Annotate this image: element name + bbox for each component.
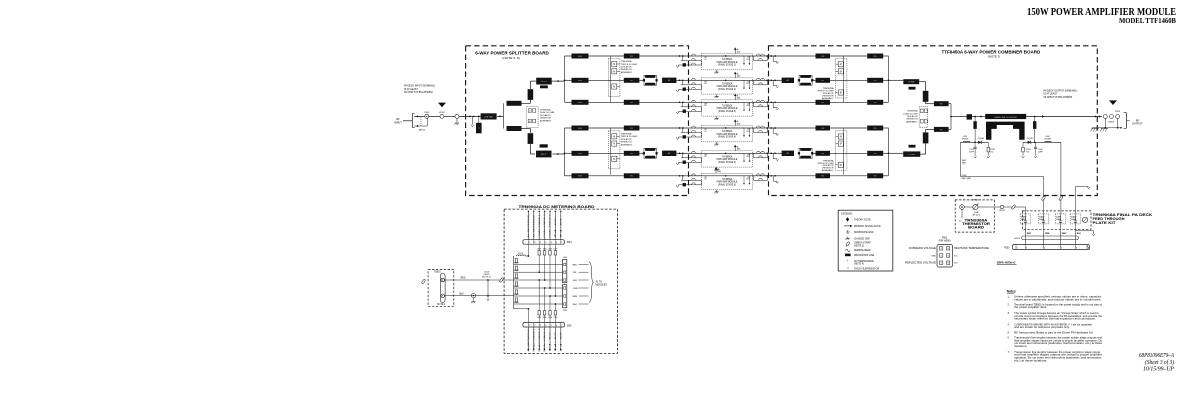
svg-text:TB501: TB501 <box>434 272 441 274</box>
svg-text:MODEL TTF1460B: MODEL TTF1460B <box>1119 17 1176 25</box>
svg-text:HEATSINK TEMPERATURE: HEATSINK TEMPERATURE <box>954 247 990 250</box>
svg-text:470NH: 470NH <box>962 139 969 141</box>
svg-text:8: 8 <box>534 242 535 244</box>
svg-text:(FINAL STAGE 4): (FINAL STAGE 4) <box>718 136 736 139</box>
svg-text:2DB PAD: 2DB PAD <box>484 115 493 118</box>
svg-text:BLK: BLK <box>460 293 465 295</box>
svg-text:3: 3 <box>1026 247 1027 249</box>
svg-text:BRN: BRN <box>573 296 578 298</box>
svg-text:(FINAL STAGE 2): (FINAL STAGE 2) <box>718 88 736 91</box>
svg-text:FINAL STAGE 1: FINAL STAGE 1 <box>538 213 541 237</box>
svg-text:ASSEMBLY: ASSEMBLY <box>621 143 633 146</box>
svg-text:50 OHM TYP 851-870MHZ: 50 OHM TYP 851-870MHZ <box>404 91 433 94</box>
svg-text:3: 3 <box>540 325 541 327</box>
svg-text:necessary strain relief for th: necessary strain relief for thermal expa… <box>1014 317 1096 321</box>
svg-text:3.: 3. <box>1008 311 1010 315</box>
svg-text:N.C.: N.C. <box>555 212 557 237</box>
svg-text:INPUT: INPUT <box>394 120 402 124</box>
svg-text:M: M <box>613 135 615 138</box>
svg-text:TLF6850A: TLF6850A <box>722 178 733 181</box>
svg-text:4: 4 <box>1044 247 1045 249</box>
svg-text:60 OHM TYP 851-870MHZ: 60 OHM TYP 851-870MHZ <box>1044 96 1073 99</box>
svg-text:RED: RED <box>1027 233 1032 235</box>
svg-text:6-WAY POWER SPLITTER BOARD: 6-WAY POWER SPLITTER BOARD <box>475 50 549 55</box>
svg-text:P550: P550 <box>1004 248 1010 250</box>
svg-text:1: 1 <box>941 263 942 265</box>
svg-text:GRY: GRY <box>573 280 578 282</box>
svg-text:FORWARD VOLTAGE: FORWARD VOLTAGE <box>909 247 937 250</box>
svg-text:TRIPLE 50 OHM: TRIPLE 50 OHM <box>621 64 637 66</box>
svg-text:5.: 5. <box>1008 331 1010 335</box>
svg-text:PWR AMP MODULE: PWR AMP MODULE <box>717 133 738 136</box>
svg-text:OUTPUT: OUTPUT <box>1132 122 1143 126</box>
svg-text:(A5): (A5) <box>737 148 741 151</box>
svg-text:(FINAL STAGE 1): (FINAL STAGE 1) <box>718 64 736 67</box>
svg-text:REFLECTED VOLTAGE: REFLECTED VOLTAGE <box>905 262 937 265</box>
svg-text:10/15/99–UP: 10/15/99–UP <box>1143 366 1174 373</box>
svg-text:6: 6 <box>948 255 949 257</box>
svg-text:TRN9093A: TRN9093A <box>621 60 632 63</box>
svg-text:TLF6850A: TLF6850A <box>722 58 733 61</box>
svg-text:COMB: COMB <box>909 154 916 156</box>
svg-text:6: 6 <box>948 248 949 250</box>
svg-text:ISOLATOR: ISOLATOR <box>907 115 918 118</box>
svg-text:FINAL STAGE 4: FINAL STAGE 4 <box>532 327 535 351</box>
svg-text:MODULES: MODULES <box>596 285 608 287</box>
svg-text:(A4): (A4) <box>737 122 741 125</box>
svg-text:ISOLATOR: ISOLATOR <box>540 114 551 117</box>
svg-text:1: 1 <box>941 248 942 250</box>
svg-text:3DB: 3DB <box>578 128 583 130</box>
svg-text:3DB: 3DB <box>578 176 583 178</box>
svg-text:(NOTE 4): (NOTE 4) <box>854 264 864 266</box>
svg-text:1.: 1. <box>1008 294 1010 298</box>
svg-text:ASSEMBLY: ASSEMBLY <box>822 169 834 172</box>
svg-text:1: 1 <box>529 325 530 327</box>
svg-text:A1 METERING: A1 METERING <box>527 328 530 352</box>
svg-text:TLF6850A: TLF6850A <box>722 104 733 107</box>
svg-text:TLF6850A: TLF6850A <box>722 155 733 158</box>
svg-text:M: M <box>840 70 842 73</box>
svg-text:M: M <box>613 70 615 73</box>
svg-text:SPLIT: SPLIT <box>541 154 548 156</box>
svg-text:locations.: locations. <box>1014 344 1028 348</box>
svg-text:CR501: CR501 <box>978 138 985 140</box>
svg-text:3DB: 3DB <box>578 153 583 155</box>
svg-text:RESISTOR: RESISTOR <box>621 142 632 144</box>
svg-text:N.C.: N.C. <box>560 326 562 351</box>
svg-text:LEGEND:: LEGEND: <box>841 212 853 216</box>
svg-text:(NOTE 5, 6): (NOTE 5, 6) <box>502 56 519 60</box>
svg-text:RT501: RT501 <box>972 200 979 202</box>
svg-text:Notes: Notes <box>1007 290 1016 294</box>
svg-text:R506: R506 <box>514 302 519 304</box>
svg-text:(FINAL STAGE 5): (FINAL STAGE 5) <box>718 161 736 164</box>
svg-text:(NOTE 7): (NOTE 7) <box>988 54 1000 58</box>
svg-text:P508: P508 <box>962 175 968 177</box>
svg-text:SUBSTRATE GND: SUBSTRATE GND <box>854 231 874 234</box>
svg-text:470NH: 470NH <box>1044 139 1051 141</box>
svg-text:N.C.: N.C. <box>954 263 959 265</box>
svg-text:M: M <box>840 92 842 95</box>
svg-text:NOTE 2: NOTE 2 <box>437 304 446 306</box>
svg-text:SPLIT: SPLIT <box>541 81 548 83</box>
svg-text:PWR AMP MODULE: PWR AMP MODULE <box>717 61 738 64</box>
svg-text:FERRITE BEAD: FERRITE BEAD <box>854 249 871 252</box>
svg-text:M: M <box>840 63 842 66</box>
svg-text:PWR AMP MODULE: PWR AMP MODULE <box>717 181 738 184</box>
svg-text:TRN9092A: TRN9092A <box>907 110 918 113</box>
svg-text:7: 7 <box>561 325 562 327</box>
svg-text:BLK: BLK <box>1077 233 1082 235</box>
svg-text:R503: R503 <box>514 278 519 280</box>
svg-text:TLF6850A: TLF6850A <box>722 82 733 85</box>
svg-text:R502: R502 <box>514 270 519 272</box>
svg-text:ISOLATOR: ISOLATOR <box>621 66 632 69</box>
svg-text:DUAL 50 OHM: DUAL 50 OHM <box>540 111 554 114</box>
svg-text:10PF: 10PF <box>1038 152 1044 154</box>
svg-text:WHT (A8): WHT (A8) <box>962 177 972 180</box>
svg-text:THEORY NOTE: THEORY NOTE <box>854 219 871 221</box>
svg-text:(PIN VIEW): (PIN VIEW) <box>939 240 951 242</box>
svg-text:J507: J507 <box>563 310 567 312</box>
svg-text:P502: P502 <box>424 112 430 114</box>
svg-text:ORN: ORN <box>573 288 578 290</box>
svg-text:10PF: 10PF <box>969 152 975 154</box>
svg-text:A1 METERING: A1 METERING <box>527 214 530 238</box>
svg-text:1: 1 <box>941 255 942 257</box>
svg-text:3DB: 3DB <box>578 56 583 58</box>
svg-text:DUAL 50 OHM: DUAL 50 OHM <box>903 112 917 115</box>
svg-text:7: 7 <box>529 242 530 244</box>
svg-text:(A2): (A2) <box>737 75 741 78</box>
svg-text:P502: P502 <box>942 238 948 240</box>
svg-text:FINAL STAGE 6: FINAL STAGE 6 <box>543 327 546 351</box>
svg-text:TAB: TAB <box>962 162 967 165</box>
svg-text:N.C.: N.C. <box>555 326 557 351</box>
svg-text:RESISTOR: RESISTOR <box>540 118 551 120</box>
svg-text:PWR AMP MODULE: PWR AMP MODULE <box>717 107 738 110</box>
svg-text:ISOLATOR: ISOLATOR <box>621 138 632 141</box>
svg-text:NOT REPAIRABLE: NOT REPAIRABLE <box>854 260 874 263</box>
svg-text:PWR AMP MODULE: PWR AMP MODULE <box>717 158 738 161</box>
svg-text:(FINAL STAGE 3): (FINAL STAGE 3) <box>718 110 736 113</box>
svg-text:and are shown for reference pu: and are shown for reference purposes onl… <box>1014 325 1070 329</box>
svg-text:TRIPLE 50 OHM: TRIPLE 50 OHM <box>621 136 637 138</box>
svg-text:R505: R505 <box>514 294 519 296</box>
svg-text:THICK FILM RESISTOR: THICK FILM RESISTOR <box>854 268 879 270</box>
svg-text:6: 6 <box>556 325 557 327</box>
svg-text:N.C.: N.C. <box>954 255 959 257</box>
svg-text:etc.) at those locations.: etc.) at those locations. <box>1014 359 1047 363</box>
svg-text:R504: R504 <box>514 286 519 288</box>
svg-text:W504: W504 <box>999 210 1005 212</box>
svg-text:J505: J505 <box>567 326 573 328</box>
svg-text:M: M <box>613 63 615 66</box>
svg-text:(NOTE 5): (NOTE 5) <box>482 277 491 279</box>
svg-text:N.C.: N.C. <box>560 212 562 237</box>
svg-text:4: 4 <box>556 242 557 244</box>
svg-text:2: 2 <box>545 242 546 244</box>
svg-text:P503: P503 <box>1115 111 1121 113</box>
svg-text:RF Interconnect Board is part: RF Interconnect Board is part of the Dri… <box>1014 331 1094 335</box>
svg-text:5: 5 <box>561 242 562 244</box>
svg-text:M: M <box>840 136 842 139</box>
svg-text:GND: GND <box>931 255 936 257</box>
svg-text:2: 2 <box>534 325 535 327</box>
svg-text:4: 4 <box>545 325 546 327</box>
svg-text:WHT: WHT <box>1062 233 1067 235</box>
svg-text:RED: RED <box>573 264 578 266</box>
svg-text:PRIMARY SIGNAL FLOW: PRIMARY SIGNAL FLOW <box>854 225 881 228</box>
svg-text:1: 1 <box>1017 247 1018 249</box>
svg-text:2.: 2. <box>1008 302 1010 306</box>
svg-text:M: M <box>840 164 842 167</box>
svg-text:the power amplifier deck.: the power amplifier deck. <box>1014 305 1047 309</box>
svg-text:RESISTOR: RESISTOR <box>621 69 632 71</box>
svg-text:(A1): (A1) <box>737 50 741 53</box>
svg-text:PWR AMP MODULE: PWR AMP MODULE <box>717 85 738 88</box>
svg-text:N.C.: N.C. <box>550 326 552 351</box>
svg-text:6.: 6. <box>1008 335 1010 339</box>
svg-text:J506: J506 <box>563 257 567 259</box>
svg-text:1: 1 <box>540 242 541 244</box>
svg-text:ASSEMBLY: ASSEMBLY <box>822 97 834 100</box>
svg-text:M: M <box>613 158 615 161</box>
svg-text:(A3): (A3) <box>737 97 741 100</box>
svg-text:3DB: 3DB <box>578 102 583 104</box>
svg-text:A1 METERING: A1 METERING <box>532 214 535 238</box>
svg-text:not insert test instruments (w: not insert test instruments (wattmeter, … <box>1014 341 1102 345</box>
svg-text:FINAL STAGE 2: FINAL STAGE 2 <box>543 213 546 237</box>
svg-text:values are in picofarads, and: values are in picofarads, and inductor v… <box>1014 297 1101 301</box>
svg-text:ORN: ORN <box>1045 233 1050 235</box>
svg-text:PLATE KIT: PLATE KIT <box>1093 221 1117 225</box>
svg-text:FINAL STAGE 3: FINAL STAGE 3 <box>549 213 552 237</box>
svg-text:ASSEMBLY: ASSEMBLY <box>621 71 633 74</box>
svg-text:A1 TO: A1 TO <box>596 281 603 284</box>
svg-text:ASSEMBLY: ASSEMBLY <box>906 120 918 123</box>
svg-text:(FINAL STAGE 6): (FINAL STAGE 6) <box>718 183 736 186</box>
svg-text:TRN9062A DC METERING BOARD: TRN9062A DC METERING BOARD <box>519 204 595 209</box>
svg-text:5: 5 <box>551 325 552 327</box>
svg-text:4.: 4. <box>1008 322 1010 326</box>
svg-text:DEPS–48739–O: DEPS–48739–O <box>997 262 1016 265</box>
svg-text:7.: 7. <box>1008 350 1010 354</box>
svg-text:(A6): (A6) <box>718 170 722 173</box>
svg-text:W502: W502 <box>439 112 445 114</box>
svg-text:BOARD: BOARD <box>968 226 985 230</box>
svg-text:RESISTOR: RESISTOR <box>907 119 918 121</box>
svg-text:M: M <box>840 143 842 146</box>
svg-text:OMEGA STRAP: OMEGA STRAP <box>854 242 871 245</box>
svg-text:COMB: COMB <box>908 82 915 84</box>
svg-text:5: 5 <box>1061 247 1062 249</box>
svg-text:TRN9092A: TRN9092A <box>540 108 551 111</box>
svg-text:FINAL STAGE 5: FINAL STAGE 5 <box>538 327 541 351</box>
svg-text:(NOTE 3): (NOTE 3) <box>854 245 864 247</box>
svg-text:M: M <box>613 86 615 89</box>
svg-text:TRN9093A: TRN9093A <box>621 132 632 135</box>
svg-text:CR502: CR502 <box>1027 138 1034 140</box>
svg-text:M: M <box>613 143 615 146</box>
svg-text:AT 25°C: AT 25°C <box>973 213 981 216</box>
svg-text:3: 3 <box>551 242 552 244</box>
svg-text:9: 9 <box>1076 247 1077 249</box>
svg-text:W503: W503 <box>1108 122 1114 124</box>
svg-text:WHT: WHT <box>573 304 579 306</box>
svg-text:MICROSTRIP LINE: MICROSTRIP LINE <box>854 255 875 257</box>
svg-text:ASSEMBLY: ASSEMBLY <box>540 119 552 122</box>
svg-text:6: 6 <box>948 263 949 265</box>
svg-text:R501: R501 <box>514 262 519 264</box>
svg-text:(RED): (RED) <box>419 130 425 132</box>
svg-text:MAIN LINE COUPLER: MAIN LINE COUPLER <box>994 116 1017 119</box>
svg-text:W502: W502 <box>1014 238 1020 240</box>
svg-text:3DB: 3DB <box>578 80 583 82</box>
svg-text:RED: RED <box>461 278 466 280</box>
svg-text:J504: J504 <box>567 242 573 244</box>
svg-text:CHASSIS GND: CHASSIS GND <box>854 237 870 240</box>
svg-text:TLF6850A: TLF6850A <box>722 130 733 133</box>
